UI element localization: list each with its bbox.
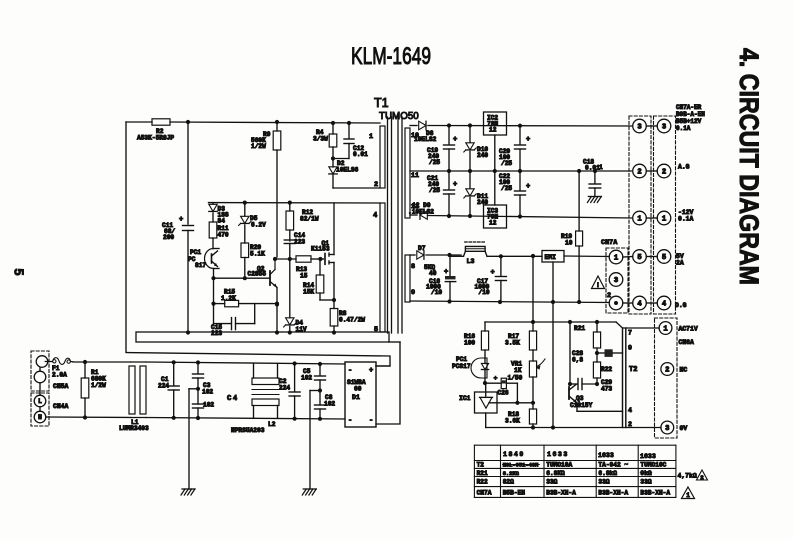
svg-text:0V: 0V bbox=[680, 425, 688, 432]
svg-text:9kΩ: 9kΩ bbox=[640, 470, 651, 477]
svg-text:+: + bbox=[526, 136, 530, 144]
svg-text:TUMO10A: TUMO10A bbox=[546, 462, 572, 469]
svg-text:/25: /25 bbox=[501, 185, 512, 192]
svg-text:IC1: IC1 bbox=[459, 395, 471, 402]
svg-text:CN7A: CN7A bbox=[601, 239, 618, 247]
svg-text:2A: 2A bbox=[676, 260, 684, 267]
svg-text:.10ELS2: .10ELS2 bbox=[408, 209, 434, 216]
svg-text:NPRSUA203: NPRSUA203 bbox=[231, 427, 265, 434]
svg-text:2: 2 bbox=[665, 367, 669, 375]
svg-text:473: 473 bbox=[601, 386, 612, 393]
svg-text:C4: C4 bbox=[227, 395, 239, 403]
svg-text:C26: C26 bbox=[498, 389, 509, 396]
svg-text:7: 7 bbox=[628, 330, 632, 337]
svg-text:33Ω: 33Ω bbox=[640, 479, 651, 486]
svg-text:102: 102 bbox=[202, 389, 213, 396]
svg-text:1633: 1633 bbox=[640, 453, 656, 460]
svg-text:2: 2 bbox=[637, 169, 641, 177]
svg-text:CN7A-ER: CN7A-ER bbox=[676, 104, 702, 111]
svg-text:1/2W: 1/2W bbox=[91, 382, 106, 389]
svg-text:82/1W: 82/1W bbox=[300, 216, 319, 223]
svg-text:-: - bbox=[369, 417, 373, 425]
svg-text:33Ω: 33Ω bbox=[598, 479, 609, 486]
svg-text:6.8kΩ: 6.8kΩ bbox=[598, 470, 617, 477]
svg-text:2: 2 bbox=[607, 292, 611, 300]
svg-text:R21: R21 bbox=[574, 325, 585, 332]
svg-text:L: L bbox=[38, 398, 42, 405]
svg-text:Q3: Q3 bbox=[576, 395, 584, 402]
svg-text:102: 102 bbox=[324, 401, 335, 408]
svg-text:KLM-1649: KLM-1649 bbox=[351, 43, 431, 70]
svg-text:4: 4 bbox=[373, 212, 378, 220]
svg-text:PC1: PC1 bbox=[456, 356, 467, 363]
svg-text:1: 1 bbox=[599, 164, 603, 171]
svg-text:+: + bbox=[494, 375, 498, 382]
svg-text:3.5K: 3.5K bbox=[505, 340, 520, 347]
svg-text:2: 2 bbox=[662, 169, 666, 177]
svg-text:1633: 1633 bbox=[598, 452, 614, 459]
svg-text:/10: /10 bbox=[431, 289, 442, 296]
svg-text:A53K-5R8JP: A53K-5R8JP bbox=[137, 135, 174, 142]
svg-text:3/3W: 3/3W bbox=[313, 136, 328, 143]
svg-text:!: ! bbox=[596, 282, 600, 289]
svg-text:223: 223 bbox=[294, 239, 305, 246]
svg-text:PC1: PC1 bbox=[190, 249, 201, 256]
svg-text:A.G: A.G bbox=[678, 164, 690, 171]
svg-text:4,7kΩ: 4,7kΩ bbox=[678, 473, 697, 480]
svg-text:-: - bbox=[348, 417, 352, 425]
svg-text:4. CIRCUIT DIAGRAM: 4. CIRCUIT DIAGRAM bbox=[734, 48, 764, 285]
svg-text:CN7A: CN7A bbox=[477, 490, 492, 497]
svg-text:1/50: 1/50 bbox=[508, 375, 523, 382]
svg-text:D7: D7 bbox=[418, 245, 426, 252]
svg-text:R21: R21 bbox=[477, 470, 488, 477]
svg-text:R22: R22 bbox=[477, 479, 488, 486]
svg-text:C2855: C2855 bbox=[248, 271, 267, 278]
svg-text:3.6K: 3.6K bbox=[505, 418, 520, 425]
svg-text:AC71V: AC71V bbox=[679, 326, 698, 333]
svg-text:TA-042 ~: TA-042 ~ bbox=[598, 462, 628, 469]
svg-text:/10: /10 bbox=[479, 289, 490, 296]
svg-text:470: 470 bbox=[218, 232, 229, 239]
svg-text:C1815Y: C1815Y bbox=[570, 402, 593, 409]
svg-text:NC: NC bbox=[680, 367, 688, 374]
svg-text:1K: 1K bbox=[514, 367, 522, 374]
svg-text:+: + bbox=[491, 269, 495, 277]
svg-text:2: 2 bbox=[700, 474, 704, 481]
svg-text:15: 15 bbox=[300, 273, 308, 280]
svg-text:EMI: EMI bbox=[545, 254, 557, 261]
svg-text:K1153: K1153 bbox=[311, 246, 330, 253]
svg-text:0.47/2W: 0.47/2W bbox=[339, 317, 365, 324]
svg-text:0.01: 0.01 bbox=[585, 164, 600, 171]
svg-text:6,8: 6,8 bbox=[572, 357, 583, 364]
svg-text:+: + bbox=[453, 136, 457, 144]
svg-text:1: 1 bbox=[614, 255, 619, 263]
svg-text:1.2K: 1.2K bbox=[221, 295, 236, 302]
svg-text:+: + bbox=[526, 183, 530, 191]
svg-text:4: 4 bbox=[637, 301, 642, 309]
svg-text:1633: 1633 bbox=[547, 451, 569, 458]
svg-text:R22: R22 bbox=[601, 366, 612, 373]
svg-text:B5B-EH: B5B-EH bbox=[503, 490, 526, 497]
svg-text:1: 1 bbox=[637, 216, 642, 224]
svg-text:224: 224 bbox=[158, 383, 169, 390]
svg-text:1/2W: 1/2W bbox=[251, 143, 266, 150]
svg-text:4: 4 bbox=[628, 407, 632, 414]
svg-text:3: 3 bbox=[614, 277, 618, 285]
svg-text:3: 3 bbox=[637, 124, 641, 132]
svg-text:1: 1 bbox=[663, 326, 668, 334]
svg-text:+: + bbox=[369, 367, 373, 375]
svg-text:102: 102 bbox=[203, 402, 214, 409]
svg-text:9: 9 bbox=[411, 289, 415, 297]
svg-text:CN4A: CN4A bbox=[53, 403, 69, 410]
svg-text:5.1K: 5.1K bbox=[250, 251, 265, 258]
svg-text:B9B-A-EH: B9B-A-EH bbox=[676, 111, 705, 118]
svg-text:6.8KΩ: 6.8KΩ bbox=[546, 470, 565, 477]
svg-text:T2: T2 bbox=[629, 366, 637, 374]
svg-text:224: 224 bbox=[279, 385, 290, 392]
svg-text:CN6A: CN6A bbox=[679, 339, 695, 346]
svg-text:6.2V: 6.2V bbox=[251, 222, 266, 229]
svg-text:NSL-051-46M: NSL-051-46M bbox=[503, 463, 539, 469]
svg-text:82Ω: 82Ω bbox=[503, 479, 514, 486]
svg-text:200: 200 bbox=[163, 234, 174, 241]
svg-text:12: 12 bbox=[489, 127, 497, 134]
svg-text:D.G: D.G bbox=[675, 302, 687, 309]
svg-text:/25: /25 bbox=[501, 160, 512, 167]
svg-text:/25: /25 bbox=[429, 187, 440, 194]
svg-text:D1: D1 bbox=[352, 394, 360, 401]
svg-text:0.1A: 0.1A bbox=[676, 125, 691, 132]
svg-text:B3B-XH-A: B3B-XH-A bbox=[546, 490, 576, 497]
svg-text:L3: L3 bbox=[467, 258, 475, 265]
svg-text:5: 5 bbox=[374, 326, 378, 334]
svg-text:T2: T2 bbox=[477, 462, 485, 469]
svg-text:5: 5 bbox=[637, 254, 641, 262]
svg-text:3: 3 bbox=[665, 425, 669, 433]
svg-text:33Ω: 33Ω bbox=[546, 479, 557, 486]
svg-text:4: 4 bbox=[662, 301, 667, 309]
svg-text:1: 1 bbox=[686, 492, 690, 499]
svg-text:2.0A: 2.0A bbox=[52, 372, 67, 379]
svg-text:B3B-XH-A: B3B-XH-A bbox=[640, 490, 670, 497]
svg-text:102: 102 bbox=[301, 375, 312, 382]
svg-text:2: 2 bbox=[374, 181, 378, 189]
svg-text:0.01: 0.01 bbox=[353, 151, 368, 158]
svg-text:L2: L2 bbox=[268, 421, 276, 428]
svg-text:223: 223 bbox=[211, 330, 222, 337]
svg-text:5: 5 bbox=[662, 254, 666, 262]
svg-text:15K: 15K bbox=[303, 289, 314, 296]
svg-text:100: 100 bbox=[464, 340, 475, 347]
svg-text:8: 8 bbox=[411, 263, 415, 271]
svg-text:+: + bbox=[179, 216, 183, 224]
svg-text:B3B-XH-A: B3B-XH-A bbox=[598, 490, 628, 497]
svg-text:12: 12 bbox=[489, 220, 497, 227]
svg-text:817: 817 bbox=[195, 262, 206, 269]
svg-text:T1: T1 bbox=[374, 96, 389, 110]
svg-text:PCS17: PCS17 bbox=[452, 363, 471, 370]
svg-text:10: 10 bbox=[565, 240, 573, 247]
svg-text:0.1A: 0.1A bbox=[678, 216, 694, 223]
svg-text:LUMR3403: LUMR3403 bbox=[119, 425, 149, 432]
svg-text:-: - bbox=[348, 367, 352, 375]
svg-text:N: N bbox=[38, 414, 42, 421]
svg-text:3: 3 bbox=[662, 124, 666, 132]
svg-text:60: 60 bbox=[354, 386, 362, 393]
svg-text:CN5A: CN5A bbox=[53, 383, 69, 390]
svg-text:8.2KΩ: 8.2KΩ bbox=[503, 471, 520, 477]
svg-text:240: 240 bbox=[477, 199, 488, 206]
svg-text:TUMO10C: TUMO10C bbox=[640, 462, 666, 469]
svg-text:/25: /25 bbox=[429, 159, 440, 166]
svg-text:40: 40 bbox=[429, 270, 437, 277]
svg-text:84: 84 bbox=[218, 217, 226, 224]
svg-text:TUMO50: TUMO50 bbox=[379, 111, 419, 122]
svg-text:10ELS2: 10ELS2 bbox=[414, 136, 437, 143]
svg-text:11: 11 bbox=[411, 172, 419, 179]
svg-text:9: 9 bbox=[628, 345, 632, 352]
svg-text:+: + bbox=[453, 181, 457, 189]
svg-text:1: 1 bbox=[662, 216, 667, 224]
svg-text:2: 2 bbox=[628, 421, 632, 428]
svg-text:1849: 1849 bbox=[503, 451, 525, 458]
svg-text:240: 240 bbox=[477, 152, 488, 159]
svg-text:1: 1 bbox=[369, 133, 373, 141]
svg-text:5: 5 bbox=[12, 269, 26, 276]
svg-text:B5B+12V: B5B+12V bbox=[676, 118, 702, 125]
svg-text:+: + bbox=[444, 269, 448, 277]
svg-text:10ELS6: 10ELS6 bbox=[336, 167, 359, 174]
